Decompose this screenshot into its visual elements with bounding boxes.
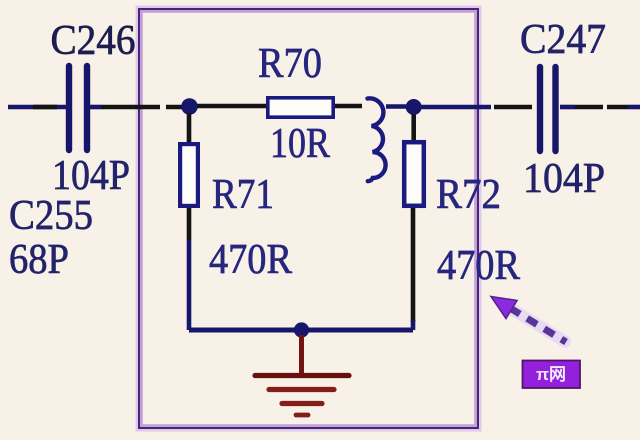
node B (junction) [406,99,422,115]
wire R72 to bottom rail [411,208,416,330]
svg-text:R72: R72 [436,172,501,218]
resistor R72 [404,142,424,206]
wire R70 to inductor [335,104,362,109]
svg-text:470R: 470R [209,237,292,283]
wire node B to C247 [421,105,532,110]
capacitor C247 [540,67,556,151]
wire C246 to node A [90,105,185,110]
node A (junction) [181,98,198,115]
wire R71 to bottom rail [187,208,192,330]
svg-text:R71: R71 [212,172,274,218]
svg-text:C246: C246 [51,18,136,64]
svg-text:R70: R70 [258,41,322,87]
wire node A down to R71 [187,113,192,143]
ground [255,335,349,415]
svg-text:470R: 470R [437,243,520,289]
resistor R71 [180,144,198,206]
svg-text:10R: 10R [270,121,330,167]
resistor R70 [268,98,333,117]
svg-text:104P: 104P [523,156,605,202]
wire C247 to right edge [560,105,640,110]
svg-text:C255: C255 [9,193,93,239]
wire inductor to node B [386,104,406,109]
inductor L1 [368,98,386,181]
annotation arrow (dashed, pointing at frame) [491,297,566,343]
annotation frame (pi-network highlight box) [139,9,478,428]
wire node B down to R72 [411,114,416,141]
svg-text:C247: C247 [520,17,606,63]
capacitor C246 [69,66,87,150]
node C (bottom junction) [294,322,309,337]
svg-text:π网: π网 [536,365,566,384]
svg-text:68P: 68P [9,237,69,283]
wire left input [8,105,66,110]
label box pi-network [523,361,581,389]
bottom rail wire [189,328,413,333]
wire node A to R70 [197,104,267,109]
